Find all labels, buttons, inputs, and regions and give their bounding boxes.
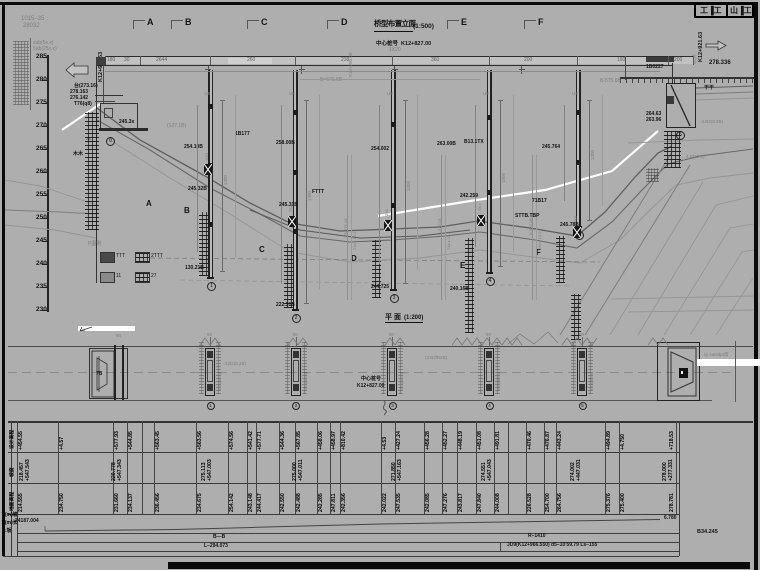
row header gradient (11, 467, 16, 477)
section letter B top (185, 18, 192, 27)
bridge deck light band (105, 57, 693, 64)
pier P3 top gray label (387, 92, 393, 97)
plan pier dim note (400, 373, 404, 390)
table row line L2 (8, 452, 679, 453)
right direction arrow outline (706, 41, 726, 50)
centerline tick below deck (208, 66, 209, 74)
elevation label 260 (36, 169, 47, 176)
station elev design +567.85 (297, 431, 302, 450)
pier P1 joint mark (208, 222, 212, 227)
span tick (625, 56, 626, 65)
label 71B17 (532, 199, 547, 204)
right abutment box (666, 83, 696, 128)
label 240.16B (450, 287, 469, 292)
bridge deck bottom line (96, 65, 672, 67)
elevation label 230 (36, 307, 47, 314)
span dim 200 (524, 58, 532, 63)
ground line main (97, 108, 672, 236)
pier P5 hatch strip (556, 236, 565, 283)
elevation label 245 (36, 238, 47, 245)
station elev design +448.19 (459, 431, 464, 450)
white line left abutment (62, 104, 100, 130)
span tick (693, 56, 694, 65)
station elev design +577.71 (258, 431, 263, 450)
table station line (256, 421, 257, 514)
station elev ground 214.555 (19, 493, 24, 512)
pier P1 base tick (207, 277, 214, 279)
center stakes label (376, 42, 431, 48)
station elev ground 254.700 (546, 493, 551, 512)
station elev design +443.24 (558, 431, 563, 450)
pier plan hatch flanks (285, 342, 290, 394)
deck end thick right (646, 57, 674, 62)
pier plan footprint (484, 348, 494, 396)
label 222.31B (276, 303, 295, 308)
abutment number circle (106, 137, 115, 146)
station elev ground 234.137 (129, 493, 134, 512)
table station line (476, 421, 477, 514)
station elev ground 275.400 (621, 493, 626, 512)
pier P1 number circle (207, 282, 216, 291)
span tick (577, 56, 578, 65)
plan center stake label (361, 377, 381, 382)
drawing number top-left (21, 16, 44, 22)
gradient cell 220.778 (112, 462, 117, 481)
span tick (668, 56, 669, 65)
right abutment diagonal strut (671, 85, 690, 126)
span tick (295, 56, 296, 65)
transition tick x625 (625, 57, 626, 80)
pier P3 left faint line (378, 105, 381, 264)
geology log column (531, 155, 534, 300)
station elev ground 234.675 (198, 493, 203, 512)
station elev design +577.93 (115, 431, 120, 450)
pier P5 far right faint line (601, 95, 604, 206)
elevation label 275 (36, 100, 47, 107)
station elev ground 264.756 (558, 493, 563, 512)
pier plan hatch flanks (571, 342, 576, 394)
geology log column (440, 155, 443, 300)
plan pier dim note (590, 373, 594, 390)
section letter C lower (259, 246, 265, 254)
legend title (88, 242, 101, 247)
left abutment body (100, 103, 138, 130)
table station line (295, 421, 296, 514)
label 245.764 (542, 145, 560, 150)
station elev design +563.56 (198, 431, 203, 450)
pier P4 joint mark (487, 115, 491, 120)
pier P2 joint mark (293, 110, 297, 115)
span dim 2644 (156, 58, 167, 63)
label 244.725 (371, 285, 389, 290)
pier P4 dim line (500, 100, 501, 267)
plan pier number circle (389, 402, 397, 410)
borehole symbol (204, 164, 212, 175)
pier P2 left faint line (280, 105, 283, 284)
table row line L6 (17, 533, 679, 534)
gray note (127.18) (167, 124, 186, 129)
plan strip bottom line (8, 400, 712, 401)
pier P5 base tick (575, 226, 582, 228)
pier P3 joint mark (391, 122, 395, 127)
label 242.259 (460, 194, 478, 199)
elevation label 270 (36, 123, 47, 130)
station elev ground 242.356 (342, 493, 347, 512)
table station line (247, 421, 248, 514)
pier plan footprint (577, 348, 587, 396)
pier P2 joint mark (293, 170, 297, 175)
pier P1 hatch strip (199, 212, 208, 276)
section letter D top (341, 18, 348, 27)
table station line (556, 421, 557, 514)
table station line (619, 421, 620, 514)
legend swatch (135, 252, 150, 263)
legend swatch (100, 272, 115, 283)
pier P5 joint mark (576, 110, 580, 115)
plan pier dim note (497, 373, 501, 390)
station elev ground 244.417 (258, 493, 263, 512)
elevation label 255 (36, 192, 47, 199)
right abutment labels (646, 112, 661, 117)
table station line (17, 421, 18, 514)
table station line (526, 421, 527, 514)
pier P3 column (392, 70, 394, 289)
station elev design +563.45 (156, 431, 161, 450)
section letter F lower (536, 249, 541, 257)
bridge deck top line (105, 56, 693, 58)
station elev ground 242.550 (281, 493, 286, 512)
table station line (279, 421, 280, 514)
station elev design +574.56 (230, 431, 235, 450)
gray pavement note (223, 362, 246, 367)
pier P4 top gray label (483, 92, 489, 97)
pier P4 column (488, 70, 490, 272)
station elev ground 247.276 (444, 493, 449, 512)
table station line (605, 421, 606, 514)
table row line L4 (8, 514, 679, 515)
section letter C top (261, 18, 268, 27)
pier P4 joint mark (487, 190, 491, 195)
centerline tick below deck (394, 66, 395, 74)
gray note right of box (700, 120, 723, 125)
plan pier number circle (207, 402, 215, 410)
pier plan hatch flanks (199, 342, 204, 394)
label 230.218 (185, 266, 204, 271)
sheet right border (754, 2, 758, 570)
left abutment labels (74, 84, 98, 89)
right abutment plan (657, 342, 700, 401)
station elev ground 243.817 (459, 493, 464, 512)
station elev ground 247.840 (478, 493, 483, 512)
section letter B lower (184, 207, 190, 215)
pier P1 column (210, 70, 212, 277)
sheet left border (2, 2, 5, 556)
station elev ground 243.148 (249, 493, 254, 512)
deck white-out patch (228, 58, 272, 65)
pier P5 dim line (589, 100, 590, 221)
pier P3 far right faint line (416, 95, 419, 269)
span dim 30 (124, 58, 130, 63)
main title elevation (374, 20, 415, 28)
label FTTT (312, 190, 324, 195)
white highlighted profile line (378, 131, 658, 216)
borehole symbol (384, 220, 392, 231)
gradient cell 271.850 (392, 462, 397, 481)
pier P5 column (577, 70, 579, 226)
pier P1 far right faint line (234, 95, 237, 257)
section letter E lower (460, 262, 465, 270)
section letter A top (147, 18, 154, 27)
span dim 160 (617, 58, 625, 63)
station elev design +454.55 (19, 431, 24, 450)
station elev ground 247.535 (397, 493, 402, 512)
span dim 238 (341, 58, 349, 63)
elevation label 285 (36, 54, 47, 61)
left abutment station text (99, 52, 105, 82)
left abutment wall line (96, 57, 98, 283)
station elev design +810.42 (342, 431, 347, 450)
table station line (442, 421, 443, 514)
pier P4 base tick (486, 272, 493, 274)
section letter A lower (146, 200, 152, 208)
station elev design +427.24 (397, 431, 402, 450)
table station line (424, 421, 425, 514)
table station line (508, 421, 509, 514)
left abutment hatch cone (85, 112, 99, 230)
section letter F top (538, 18, 544, 27)
deck-abutment connector right (672, 63, 673, 83)
label 258.00B (276, 141, 295, 146)
plan title (385, 314, 401, 321)
table station line (154, 421, 155, 514)
plan pier dim note (218, 373, 222, 390)
table row line L3 (8, 483, 679, 484)
pier P4 far right faint line (512, 95, 515, 252)
pier P2 base tick (292, 309, 299, 311)
span tick (210, 56, 211, 65)
deck-abutment seat left (96, 57, 106, 65)
table station line (127, 421, 128, 514)
gradient cell 275.113 (202, 463, 207, 481)
label 254.108 (184, 145, 203, 150)
pier P3 number circle (390, 294, 399, 303)
station elev ground 242.085 (426, 493, 431, 512)
pier P4 left faint line (474, 105, 477, 247)
ground line third faint (110, 140, 753, 263)
table station line (330, 421, 331, 514)
station elev design +452.27 (444, 431, 449, 450)
label 254.002 (371, 147, 389, 152)
span tick (489, 56, 490, 65)
sheet top border (0, 2, 758, 5)
white patch plan left (78, 326, 135, 331)
borehole symbol (288, 216, 296, 227)
label 245.328 (188, 187, 207, 192)
pier5 lower hatch (571, 294, 581, 340)
pier plan footprint (291, 348, 301, 396)
station elev ground 234.750 (60, 493, 65, 512)
table station line (340, 421, 341, 514)
station elev ground 278.781 (670, 493, 675, 512)
pier plan footprint (387, 348, 397, 396)
span dim 260 (247, 58, 255, 63)
station elev design +456.28 (426, 431, 431, 450)
table station line (676, 421, 677, 514)
station elev ground 242.488 (297, 493, 302, 512)
elevation label 280 (36, 77, 47, 84)
right abutment number circle (676, 131, 685, 140)
pier P3 hatch strip (372, 240, 381, 298)
plan pier number circle (292, 402, 300, 410)
row header design elev (11, 429, 16, 448)
scour line segment (250, 210, 470, 238)
station elev design +458.97 (332, 431, 337, 450)
station elev ground 247.811 (332, 493, 337, 511)
squiggle mark above table (378, 400, 392, 416)
station elev ground 242.285 (319, 493, 324, 512)
station elev design +458.06 (319, 431, 324, 450)
table station line (228, 421, 229, 514)
station elev ground 236.456 (156, 493, 161, 512)
centerline tick below deck (521, 66, 522, 74)
station elev design +494.89 (607, 431, 612, 450)
plan pier dim note (304, 373, 308, 390)
table station line (544, 421, 545, 514)
label B13.1TX (464, 140, 484, 145)
ground line second (97, 120, 753, 248)
left approach lines (5, 210, 96, 214)
table top line (8, 421, 753, 423)
borehole symbol (477, 215, 485, 226)
station elev design +476.87 (546, 431, 551, 450)
centerline tick below deck (301, 66, 302, 74)
station elev ground 254.142 (230, 493, 235, 512)
table left border (11, 421, 12, 556)
legend swatch (135, 272, 150, 283)
station elev design +4.750 (621, 433, 626, 449)
table station line (142, 421, 143, 514)
label STTB.TBP (515, 214, 539, 219)
pier P1 dim line (222, 100, 223, 272)
pier P2 far right faint line (318, 95, 321, 289)
pier P2 column (294, 70, 296, 309)
span dim 180 (107, 58, 115, 63)
slope row distance text (15, 519, 39, 524)
small hatch top-left (13, 41, 29, 105)
pier P2 number circle (292, 314, 301, 323)
station elev ground 231.660 (115, 493, 120, 512)
plan centerline dashed (8, 371, 735, 374)
pier P4 number circle (486, 277, 495, 286)
pier P3 dim line (405, 100, 406, 284)
span tick (140, 56, 141, 65)
station elev ground 226.528 (528, 493, 533, 512)
right bank slope lines (560, 152, 672, 335)
plan strip top line (8, 346, 753, 347)
pier P2 top gray label (289, 92, 295, 97)
table row line L7 (17, 542, 679, 543)
station elev design +4.53 (383, 436, 388, 449)
legend swatch (100, 252, 115, 263)
stamp box top-right (694, 3, 754, 18)
curve boundary tick (500, 542, 501, 552)
elevation label 240 (36, 261, 47, 268)
table station line (58, 421, 59, 514)
span tick (392, 56, 393, 65)
station text right vertical (699, 32, 705, 62)
gradient cell 218.457 (20, 462, 25, 481)
pier P2 hatch strip (284, 244, 293, 308)
roadway layer lines right (696, 86, 753, 88)
span dim 360 (431, 58, 439, 63)
curve row radius label (528, 534, 546, 539)
pier P5 top gray label (572, 92, 578, 97)
span tick (105, 56, 106, 65)
label 245.31B (279, 203, 298, 208)
station elev design +718.53 (670, 431, 675, 450)
elevation label 265 (36, 146, 47, 153)
table station line (381, 421, 382, 514)
old road faint line (300, 79, 480, 80)
left direction arrow outline (66, 63, 88, 77)
plan pier number circle (486, 402, 494, 410)
pier P4 hatch strip (465, 238, 474, 333)
section letter E top (461, 18, 467, 27)
table station line (494, 421, 495, 514)
pier P2 dim line (306, 100, 307, 304)
table row line L8 (17, 551, 679, 552)
station elev design +470.46 (528, 431, 533, 450)
station elev design +491.81 (496, 431, 501, 450)
elevation label 250 (36, 215, 47, 222)
pier P1 joint mark (208, 104, 212, 109)
station elev design +4.57 (60, 436, 65, 449)
table right border (679, 421, 680, 556)
elevation scale bar (47, 55, 50, 312)
pier plan footprint (205, 348, 215, 396)
span dim 200 (674, 58, 682, 63)
label 263.00B (437, 142, 456, 147)
label 245.78B (560, 223, 579, 228)
pier P1 joint mark (208, 163, 212, 168)
pier P5 joint mark (576, 160, 580, 165)
station elev design +541.42 (249, 431, 254, 450)
station elev ground 275.376 (607, 493, 612, 512)
pier plan hatch flanks (478, 342, 483, 394)
gradient cell 278.000 (663, 462, 668, 481)
pier P5 left faint line (563, 105, 566, 201)
white band plan right (697, 359, 760, 366)
right abutment hatch below (664, 131, 681, 168)
station elev design +544.36 (281, 431, 286, 450)
table row line L9 (3, 556, 679, 557)
plan pier number circle (579, 402, 587, 410)
table station line (317, 421, 318, 514)
geological boundary dashed (150, 258, 600, 262)
table station line (395, 421, 396, 514)
terrain tick line right (620, 77, 754, 79)
pier P2 joint mark (293, 229, 297, 234)
borehole symbol (573, 227, 581, 238)
pier P5 number circle (575, 231, 584, 240)
row header ground elev (11, 491, 16, 510)
pier plan hatch flanks (381, 342, 386, 394)
station elev design +451.08 (478, 431, 483, 450)
title bar black strip bottom (168, 562, 750, 569)
station elev design +544.85 (129, 431, 134, 450)
lower right faint terraces (612, 296, 753, 299)
subgrade faint line (105, 71, 660, 72)
